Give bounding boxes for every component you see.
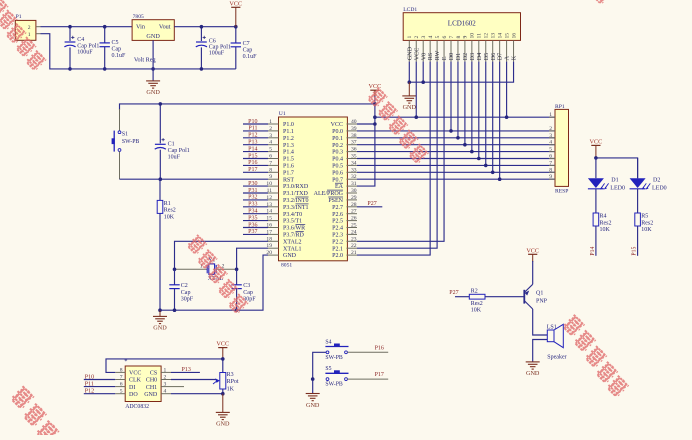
svg-text:P0.5: P0.5 [332,164,343,170]
node: LCD backlight A junction [505,115,509,119]
wire LCD gnd rail [409,62,513,83]
node: C6 bottom junction [200,67,204,71]
node: LCD pin1 gnd junction [408,80,412,84]
svg-text:0.1uF: 0.1uF [243,54,258,60]
svg-text:P0.1: P0.1 [332,136,343,142]
svg-text:A: A [504,55,511,60]
net label wire P27 on pin 28 [357,201,382,207]
ground symbol ADC [216,394,230,428]
svg-text:P2.6: P2.6 [332,212,343,218]
svg-text:P36: P36 [248,222,257,228]
regulator U 7805 [132,14,174,63]
net label wire P13 on CS [171,367,200,373]
svg-text:R3: R3 [227,372,234,378]
svg-text:P10: P10 [248,119,257,125]
svg-text:D2: D2 [462,53,469,61]
svg-text:CS: CS [150,371,157,377]
svg-text:P15: P15 [248,153,257,159]
wire ADC GND to pot bottom [171,393,223,395]
svg-text:P0.7: P0.7 [332,177,343,183]
svg-text:10uF: 10uF [168,154,181,160]
svg-text:VCC: VCC [229,0,242,7]
node: LCD VCC junction [414,115,418,119]
node: gnd rail R1 junction [158,308,162,312]
svg-text:LED0: LED0 [652,186,667,192]
svg-text:7: 7 [449,36,455,39]
svg-text:P1.7: P1.7 [283,170,294,176]
svg-text:RS: RS [427,52,434,60]
svg-text:GND: GND [216,421,230,428]
svg-text:P16: P16 [375,345,384,351]
node: crystal pin2 junction [235,268,239,272]
svg-text:30pF: 30pF [181,296,194,302]
wire ADC VCC pin8 from VCC rail [106,359,223,373]
wire LCD VCC rail to RP1 pin1 [375,62,555,118]
capacitor C5 [100,27,127,69]
ground symbol S4/S5 [306,394,320,409]
svg-text:2: 2 [28,25,31,31]
svg-text:Q1: Q1 [536,290,543,296]
svg-text:P1.1: P1.1 [283,129,294,135]
wire S4/S5 gnd branch [313,352,326,393]
svg-text:P3.7/RD: P3.7/RD [283,233,305,239]
svg-text:RPot: RPot [227,379,239,385]
node: C4 bottom junction [68,67,72,71]
svg-text:Cap: Cap [243,290,253,296]
svg-text:GND: GND [526,370,540,377]
wire EA pin31 to VCC stem [357,124,375,186]
svg-text:100uF: 100uF [77,49,93,55]
svg-text:PNP: PNP [536,298,548,304]
svg-text:Cap Pol1: Cap Pol1 [168,148,190,154]
svg-text:C4: C4 [77,37,84,43]
svg-text:P11: P11 [248,126,257,132]
crystal Y1 [175,257,237,282]
svg-text:9: 9 [463,36,469,39]
svg-text:6: 6 [442,36,448,39]
svg-text:Vout: Vout [159,24,171,31]
svg-text:CH0: CH0 [146,378,157,384]
svg-text:VCC: VCC [216,341,229,348]
svg-text:10K: 10K [641,227,652,233]
svg-text:S1: S1 [122,132,128,138]
LCD1 LCD1602 header [403,7,520,62]
wire CH1 stub [171,386,184,388]
pushbutton S1 [112,131,140,180]
svg-text:GND: GND [146,89,160,96]
svg-text:R1: R1 [164,201,171,207]
svg-text:P3.2/INT0: P3.2/INT0 [283,198,309,204]
resistor R4 [590,189,612,256]
wire P1 pin1 down to gnd rail [41,34,71,69]
svg-text:100uF: 100uF [209,51,225,57]
wire crystal gnd rail [160,255,268,310]
svg-text:4: 4 [428,36,434,39]
node: crystal pin1 junction [173,268,177,272]
node: gnd rail at 7805 [151,67,155,71]
svg-text:CH1: CH1 [146,385,157,391]
svg-text:D3: D3 [469,53,476,61]
pushbutton S4 [325,339,348,361]
node: C1/R1 RST junction [159,177,163,181]
node: C5 top junction [103,25,107,29]
ground symbol below 7805 [146,81,160,96]
svg-text:D7: D7 [497,53,504,61]
ground symbol speaker [526,362,540,377]
svg-text:GND: GND [153,325,167,332]
node: pot top junction [221,357,225,361]
svg-text:P3.5/T1: P3.5/T1 [283,219,302,225]
svg-text:P3.0/RXD: P3.0/RXD [283,184,309,190]
svg-text:ALE/PROG: ALE/PROG [314,191,344,197]
node: pot bottom junction [221,392,225,396]
svg-text:SW-PB: SW-PB [325,382,343,388]
svg-text:RP1: RP1 [555,104,565,110]
node: VCC stem / pin40 junction [373,122,377,126]
node: C5 bottom junction [103,67,107,71]
resistor R1 [157,179,176,310]
svg-text:GND: GND [403,104,417,111]
node: C4 top junction [68,25,72,29]
svg-text:Cap: Cap [243,48,253,54]
svg-text:P3.3/INT1: P3.3/INT1 [283,205,309,211]
data bus wires D0-D7 to P0.0-P0.7 and RP1 [357,62,555,180]
svg-text:D6: D6 [490,53,497,61]
svg-text:15: 15 [504,33,510,39]
svg-text:P1.6: P1.6 [283,164,294,170]
svg-text:P2.3: P2.3 [332,233,343,239]
svg-text:P1.2: P1.2 [283,136,294,142]
svg-text:LED0: LED0 [610,186,625,192]
svg-text:*: * [124,358,127,365]
svg-text:S5: S5 [325,366,331,372]
svg-text:RST: RST [283,177,294,183]
svg-text:P2.1: P2.1 [332,246,343,252]
svg-text:C1: C1 [168,142,175,148]
net label wires P10 P11 P12 [84,374,115,394]
svg-text:13: 13 [491,33,497,39]
net label wire P17 [347,372,388,379]
svg-text:P16: P16 [248,160,257,166]
svg-text:P12: P12 [248,133,257,139]
svg-text:DI: DI [129,385,135,391]
svg-text:0.1uF: 0.1uF [112,53,127,59]
svg-text:P2.5: P2.5 [332,219,343,225]
svg-text:U1: U1 [279,111,286,117]
node: LCD pin3 gnd junction [421,80,425,84]
svg-text:R5: R5 [641,214,648,220]
node: C1 top junction [159,102,163,106]
svg-text:Cap: Cap [112,47,122,53]
wire CH0 to potentiometer wiper [171,379,216,381]
svg-text:1: 1 [407,36,413,39]
node: LED rail junction [594,156,598,160]
VCC symbol above U1 [369,83,382,124]
svg-text:Cap Pol1: Cap Pol1 [209,44,231,50]
svg-text:XTAL1: XTAL1 [283,246,302,252]
svg-text:V0: V0 [420,53,427,61]
svg-text:P33: P33 [248,202,257,208]
net label wire P27 to R2 [449,290,469,297]
svg-text:P0.3: P0.3 [332,150,343,156]
svg-text:P32: P32 [248,195,257,201]
svg-text:CLK: CLK [129,378,142,384]
wire XTAL2 to crystal [175,241,269,269]
svg-text:C3: C3 [243,283,250,289]
svg-text:GND: GND [306,402,320,409]
svg-text:SW-PB: SW-PB [122,139,140,145]
LED D2 [630,158,667,192]
svg-text:P1.4: P1.4 [283,150,294,156]
capacitor C1 [155,104,190,179]
wire Q1 collector to speaker [533,309,548,335]
node: gnd rail C3 junction [235,308,239,312]
wire P1 pin2 to Vin rail [41,26,133,28]
svg-text:C2: C2 [181,283,188,289]
svg-text:E: E [441,56,448,60]
svg-text:LS1: LS1 [547,324,557,330]
svg-text:P27: P27 [449,290,458,296]
gnd rail of input section [70,68,236,70]
svg-text:XTAL2: XTAL2 [283,239,302,245]
node: C6 top junction [200,25,204,29]
capacitor C6 [196,27,231,69]
svg-text:8051: 8051 [281,263,292,269]
speaker LS1 [547,324,567,360]
svg-text:ADC0832: ADC0832 [125,404,149,410]
wire RST rail [120,178,269,180]
capacitor C2 [169,269,194,310]
capacitor C4 [64,27,99,69]
wire R2 to Q1 base [485,296,524,298]
svg-text:SW-PB: SW-PB [325,355,343,361]
svg-text:P11: P11 [85,381,94,387]
svg-text:D1: D1 [611,178,618,184]
svg-text:Volt Reg: Volt Reg [134,56,156,63]
svg-text:P1.3: P1.3 [283,143,294,149]
VCC symbol Q1 [526,247,539,284]
svg-text:GND: GND [144,392,158,398]
svg-text:EA: EA [335,184,344,190]
svg-text:8: 8 [456,36,462,39]
svg-text:Res2: Res2 [600,220,612,226]
wire LCD RS to P2.0 [357,62,430,256]
svg-text:P3.1/TXD: P3.1/TXD [283,191,309,197]
svg-text:P0.2: P0.2 [332,143,343,149]
svg-text:LCD1: LCD1 [403,7,417,13]
VCC symbol LED section [590,138,603,158]
capacitor C3 [231,269,256,310]
svg-text:D4: D4 [476,53,483,61]
svg-text:10: 10 [470,33,476,39]
svg-text:P13: P13 [248,140,257,146]
svg-text:10K: 10K [471,308,482,314]
MCU U1 8051 [266,111,357,268]
svg-text:1: 1 [28,32,31,38]
wire VCC to pin40 [357,123,375,125]
svg-text:P17: P17 [248,167,257,173]
wire LED vcc rail [596,158,638,178]
resistor R5 [632,189,654,256]
svg-text:P30: P30 [248,181,257,187]
ground symbol crystal section [153,310,167,332]
wire speaker return to gnd [533,340,548,362]
svg-text:GND: GND [406,46,413,60]
wire VCC rail to reset section [120,104,375,110]
transistor Q1 PNP [524,284,547,309]
wire 7805 GND pin down [152,40,154,81]
ADC U ADC0832 [115,366,171,410]
svg-text:7805: 7805 [133,14,144,20]
ground symbol LCD [402,82,416,111]
svg-text:VCC: VCC [526,247,539,254]
svg-text:S4: S4 [325,339,331,345]
svg-text:11: 11 [477,33,483,39]
svg-text:P0.0: P0.0 [332,129,343,135]
svg-text:VCC: VCC [129,371,141,377]
svg-text:P2.2: P2.2 [332,239,343,245]
svg-text:R4: R4 [600,214,607,220]
svg-text:P14: P14 [248,146,257,152]
node: gnd rail C2 junction [173,308,177,312]
svg-text:P0.4: P0.4 [332,157,343,163]
svg-text:P2.7: P2.7 [332,205,343,211]
svg-text:12: 12 [484,33,490,39]
svg-text:K: K [511,55,518,60]
svg-text:P3.4/T0: P3.4/T0 [283,212,302,218]
svg-text:P13: P13 [182,367,191,373]
node: C7 top junction [234,25,238,29]
wire LCD RW to P2.1 [357,62,437,249]
wire LCD E to P2.2 [357,62,444,242]
node: VCC stem / LCD VCC rail junction [373,115,377,119]
svg-text:D0: D0 [448,53,455,61]
svg-text:P17: P17 [375,372,384,378]
svg-text:D2: D2 [653,178,660,184]
svg-text:P34: P34 [248,209,257,215]
svg-text:D1: D1 [455,53,462,61]
net label wire P16 [347,345,388,352]
svg-text:14: 14 [497,33,503,39]
wire 7805 Vout to VCC corner [174,26,236,28]
resistor R2 [469,288,485,313]
svg-text:RW: RW [434,51,441,61]
svg-text:3: 3 [421,36,427,39]
VCC symbol ADC section [216,341,229,359]
svg-text:Speaker: Speaker [547,354,566,360]
nodes: D0-D7 bus junctions [449,129,501,181]
LED D1 [588,158,625,192]
svg-text:P1.0: P1.0 [283,122,294,128]
net label wires P30-P37 [243,181,268,235]
svg-text:R2: R2 [471,288,478,294]
capacitor C7 [231,27,258,69]
svg-text:10K: 10K [164,214,175,220]
svg-text:RESP: RESP [555,188,568,194]
resistor pack RP1 RESP [549,104,569,195]
svg-text:P12: P12 [85,389,94,395]
svg-text:DO: DO [129,392,138,398]
svg-text:VCC: VCC [331,122,343,128]
svg-text:P1.5: P1.5 [283,157,294,163]
svg-text:GND: GND [283,253,297,259]
svg-text:C5: C5 [112,40,119,46]
svg-text:P2.0: P2.0 [332,253,343,259]
svg-text:PSEN: PSEN [328,198,343,204]
node: VCC stem / reset rail junction [373,102,377,106]
svg-text:VCC: VCC [369,83,382,90]
potentiometer R3 RPot [213,359,239,394]
pushbutton S5 [325,366,348,388]
node: S5 branch junction [311,377,315,381]
svg-text:LCD1602: LCD1602 [448,20,477,28]
svg-text:P0.6: P0.6 [332,170,343,176]
svg-text:P3.6/WR: P3.6/WR [283,226,305,232]
svg-text:Vin: Vin [136,24,145,31]
svg-text:D5: D5 [483,53,490,61]
svg-text:C7: C7 [243,41,250,47]
svg-text:16: 16 [511,33,517,39]
svg-text:VCC: VCC [590,138,603,145]
svg-text:P37: P37 [248,229,257,235]
svg-text:10K: 10K [600,227,611,233]
svg-text:1K: 1K [227,387,235,393]
wire XTAL1 to crystal [237,248,268,269]
svg-text:Res2: Res2 [641,220,653,226]
svg-text:P2.4: P2.4 [332,226,343,232]
svg-text:2: 2 [414,36,420,39]
svg-text:VCC: VCC [413,48,420,61]
svg-text:P10: P10 [85,374,94,380]
svg-text:5: 5 [435,36,441,39]
svg-text:P35: P35 [248,215,257,221]
svg-text:GND: GND [146,33,160,40]
svg-text:P15: P15 [632,246,638,255]
svg-text:Res2: Res2 [164,208,176,214]
svg-text:P31: P31 [248,188,257,194]
svg-text:P14: P14 [590,246,596,255]
connector P1 [15,14,40,40]
svg-text:P27: P27 [367,201,376,207]
svg-text:Res2: Res2 [471,301,483,307]
svg-text:Cap: Cap [181,290,191,296]
power VCC symbol top [229,0,242,26]
net label wires P10-P17 [243,119,268,173]
